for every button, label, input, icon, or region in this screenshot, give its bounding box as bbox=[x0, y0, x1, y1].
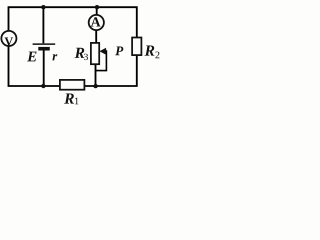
wire battery top lead bbox=[42, 7, 44, 43]
battery E short plate bbox=[38, 47, 50, 51]
node junction dot top battery bbox=[41, 5, 45, 9]
label E bbox=[27, 52, 36, 62]
voltmeter V letter bbox=[5, 38, 14, 46]
resistor R3 box bbox=[91, 43, 99, 64]
wire left-lower and bottom-left bbox=[9, 46, 61, 86]
node junction dot bottom R3 bbox=[93, 84, 97, 88]
ammeter A letter bbox=[91, 17, 101, 26]
label P bbox=[115, 47, 123, 56]
label R2 subscript bbox=[155, 52, 159, 59]
label R2 bbox=[145, 45, 155, 55]
wire ammeter to R3 lead bbox=[95, 30, 97, 43]
resistor R1 box bbox=[60, 80, 85, 90]
wire wiper vertical bbox=[96, 50, 107, 70]
label R3 bbox=[75, 48, 85, 58]
wire battery bottom lead bbox=[43, 50, 45, 86]
label R3 subscript bbox=[84, 54, 88, 60]
node junction dot top ammeter bbox=[95, 5, 99, 9]
voltmeter V circle bbox=[1, 31, 16, 46]
wire top and upper frame bbox=[9, 7, 137, 37]
label R1 bbox=[64, 93, 74, 103]
node junction dot bottom battery bbox=[41, 84, 45, 88]
potentiometer P wiper arrow bbox=[99, 48, 106, 55]
wire ammeter top lead bbox=[96, 7, 98, 15]
wire R3 bottom lead bbox=[95, 64, 97, 86]
resistor R2 box bbox=[132, 38, 141, 56]
wire bottom-right and right-lower bbox=[84, 55, 137, 86]
ammeter A circle bbox=[89, 15, 104, 30]
label R1 subscript bbox=[75, 98, 79, 105]
label r bbox=[52, 54, 57, 60]
battery E long plate bbox=[33, 43, 56, 45]
